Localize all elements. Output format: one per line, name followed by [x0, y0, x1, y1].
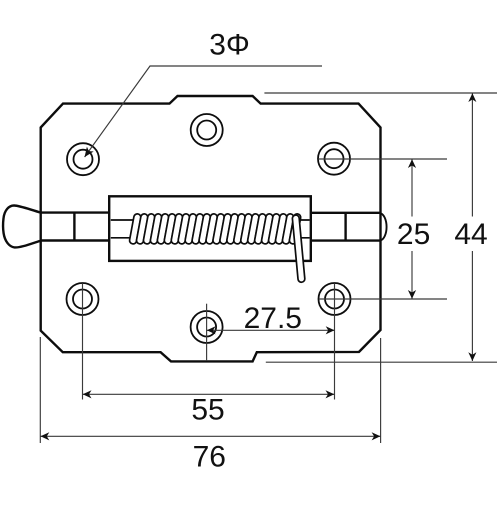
latch plate outline	[41, 96, 381, 361]
svg-text:27.5: 27.5	[244, 302, 302, 335]
bolt rounded tip	[381, 213, 387, 240]
screw hole bottom-right	[319, 283, 351, 315]
release pin	[292, 215, 305, 283]
center line bottom-right hole	[334, 283, 336, 399]
coil spring	[129, 213, 301, 244]
screw hole bottom-center	[191, 311, 223, 343]
screw hole top-right	[318, 143, 350, 175]
screw hole top-left	[67, 143, 99, 175]
dimension line 76	[40, 435, 380, 437]
svg-text:3Φ: 3Φ	[209, 29, 250, 62]
center line bottom-left hole	[82, 283, 84, 399]
rod inside housing	[111, 220, 310, 238]
dimension line 27.5	[207, 329, 335, 331]
screw hole bottom-left	[67, 283, 99, 315]
dimension line 55	[83, 393, 335, 395]
extension line left edge	[39, 337, 41, 443]
center line bottom-center hole	[206, 304, 208, 361]
knob	[3, 205, 41, 247]
bolt rod right segment	[311, 213, 381, 241]
dimension line 44	[471, 93, 473, 361]
svg-text:44: 44	[454, 218, 487, 251]
extension line bottom (44)	[266, 361, 497, 363]
svg-text:76: 76	[193, 441, 226, 474]
bolt rod left segment	[41, 213, 110, 241]
extension line right edge	[380, 338, 382, 443]
dimension line 25	[411, 159, 413, 299]
leader line 3-phi	[85, 66, 322, 157]
extension line from bottom-right hole	[319, 298, 447, 300]
svg-text:55: 55	[191, 393, 224, 426]
svg-text:25: 25	[397, 218, 430, 251]
extension line top (44)	[264, 92, 497, 94]
screw hole top-center	[191, 114, 223, 146]
extension line from top-right hole	[318, 158, 447, 160]
spring housing	[109, 196, 311, 261]
